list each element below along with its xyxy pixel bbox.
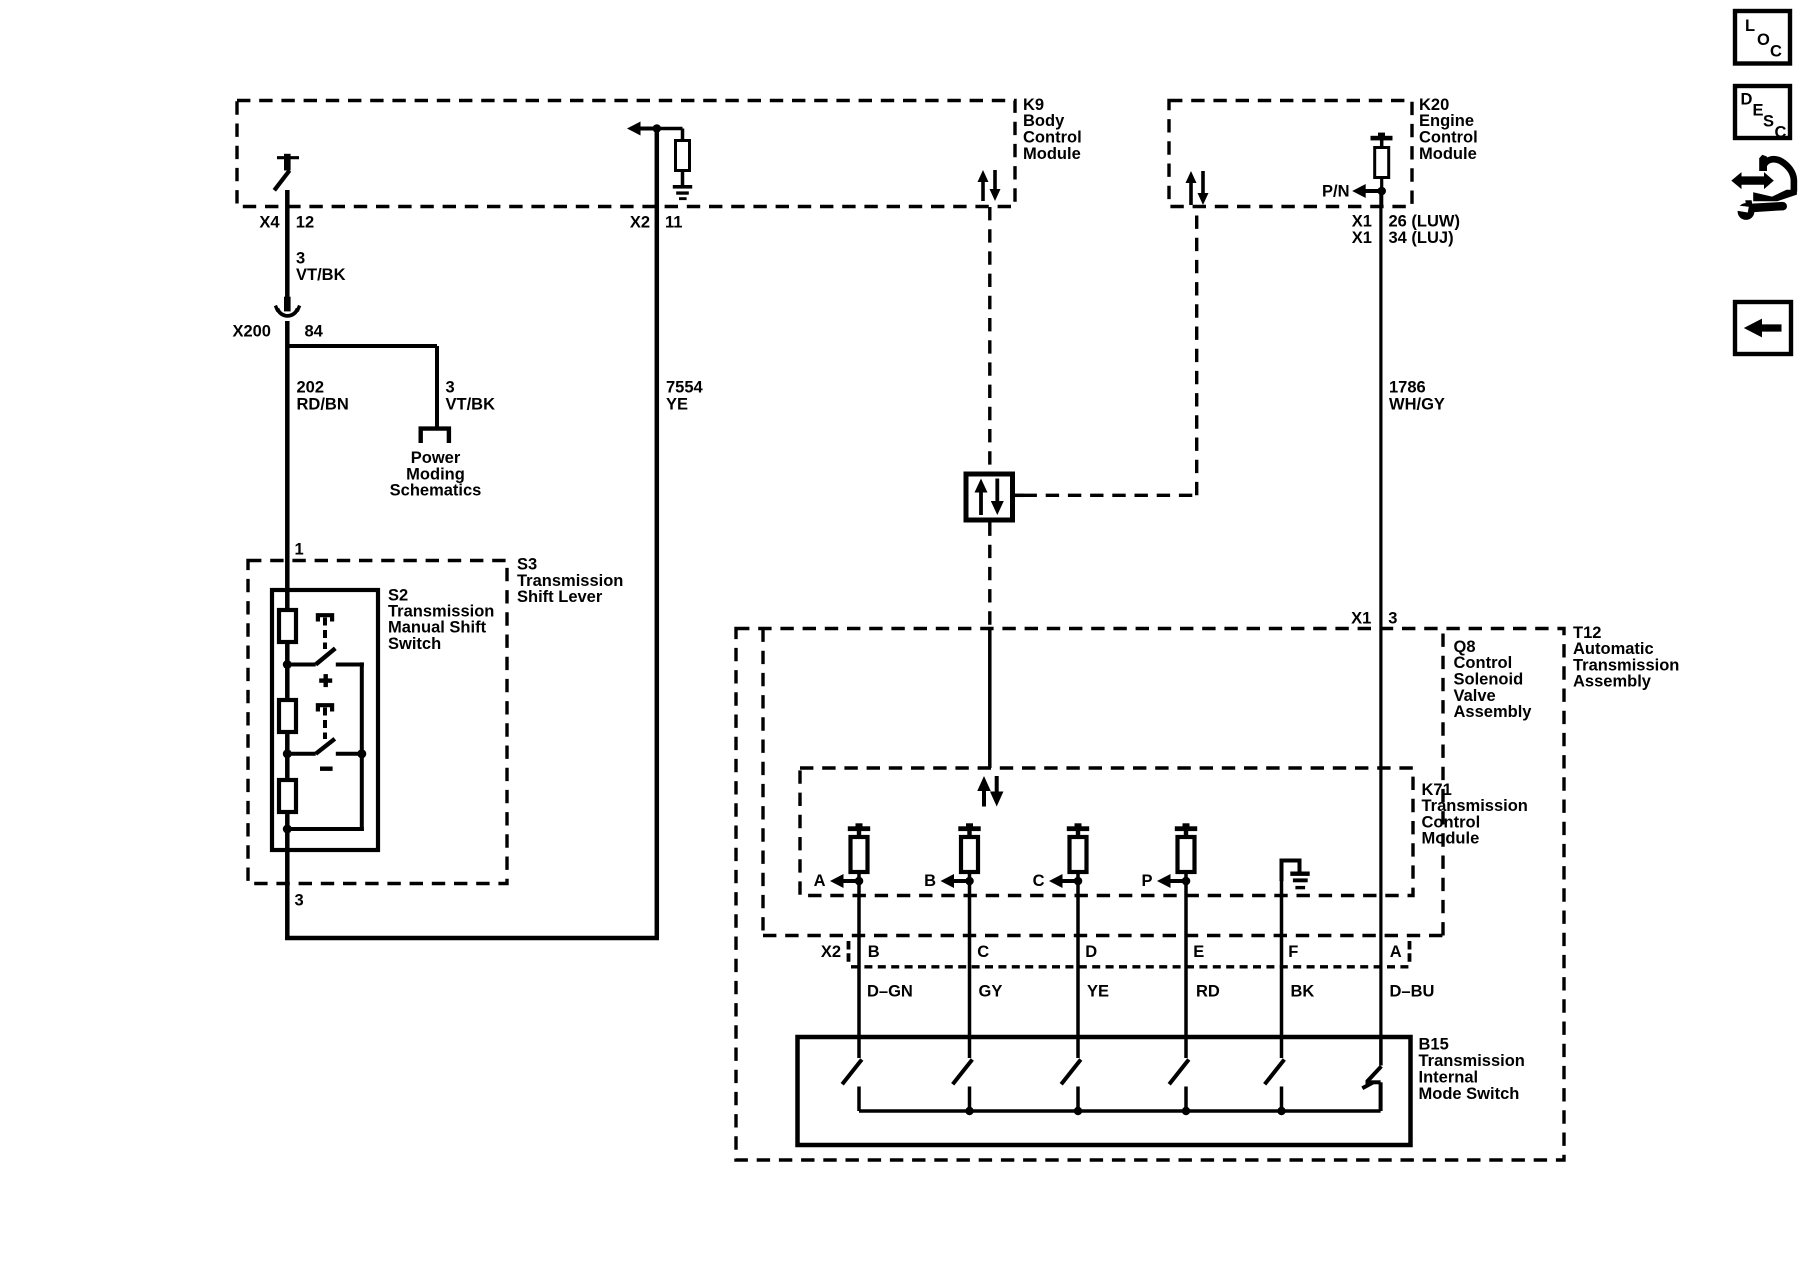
connector label X2 pin 11 xyxy=(630,214,683,232)
resistor (terminator) inside K9 xyxy=(657,129,690,186)
wire C down to B15 xyxy=(1076,881,1080,1037)
svg-text:Switch: Switch xyxy=(388,635,441,653)
solenoid driver A in K71 xyxy=(848,823,870,881)
svg-text:X200: X200 xyxy=(232,322,271,340)
svg-text:Body: Body xyxy=(1023,112,1065,130)
icon diagnostic arrows + wrench xyxy=(1731,155,1797,220)
wire 1786 WH/GY from K20 to B15 xyxy=(1379,191,1382,1037)
svg-text:3: 3 xyxy=(1388,610,1397,628)
arrow (signal continues) inside K9 xyxy=(627,122,641,136)
ground symbol inside K9 xyxy=(673,185,692,200)
svg-text:B: B xyxy=(924,872,936,890)
wire color labels xyxy=(867,983,1434,1001)
K20 label xyxy=(1419,96,1478,163)
svg-text:VT/BK: VT/BK xyxy=(296,266,346,284)
wire label 3 VT/BK (branch) xyxy=(446,379,496,414)
junction node on 1786 wire xyxy=(1377,187,1386,196)
svg-text:A: A xyxy=(1390,943,1402,961)
icon DESC button xyxy=(1735,86,1790,142)
S2 label xyxy=(388,587,494,653)
junction node C xyxy=(1074,877,1083,886)
svg-text:D: D xyxy=(1085,943,1097,961)
svg-text:S3: S3 xyxy=(517,556,537,574)
S3 Transmission Shift Lever dashed box xyxy=(248,561,507,884)
up/down serial data arrows inside K20 xyxy=(1189,182,1193,205)
svg-text:L: L xyxy=(1745,17,1755,35)
up/down serial data arrows inside K9 xyxy=(981,181,985,201)
svg-text:Automatic: Automatic xyxy=(1573,640,1654,658)
mode switch contact 1 in B15 xyxy=(842,1037,862,1111)
wire from switch to X4 pin 12 xyxy=(285,190,290,297)
dashed serial data wire from symbol down to T12 xyxy=(988,523,991,629)
module K20 Engine Control Module dashed box xyxy=(1169,101,1412,207)
svg-text:Control: Control xyxy=(1422,813,1481,831)
svg-text:K71: K71 xyxy=(1422,781,1452,799)
S3 label xyxy=(517,556,623,607)
svg-text:P/N: P/N xyxy=(1322,183,1350,201)
output arrow P xyxy=(1141,872,1186,890)
solenoid driver P in K71 xyxy=(1175,823,1197,881)
svg-text:D–GN: D–GN xyxy=(867,983,913,1001)
svg-text:Assembly: Assembly xyxy=(1573,673,1652,691)
wire F (BK) down to B15 xyxy=(1280,878,1284,1037)
svg-text:C: C xyxy=(977,943,989,961)
svg-text:Control: Control xyxy=(1023,129,1082,147)
S2 wire segment R1-R2 xyxy=(285,642,290,700)
svg-text:C: C xyxy=(1775,124,1787,142)
solenoid driver B in K71 xyxy=(958,823,980,881)
S2 switch cell 2 (-) xyxy=(287,705,364,754)
svg-text:Module: Module xyxy=(1023,145,1081,163)
svg-text:P: P xyxy=(1141,872,1152,890)
T12 label xyxy=(1573,624,1679,691)
X2 row labels xyxy=(821,943,1402,961)
mode switch contact 6 (closed, pin A) in B15 xyxy=(1362,1037,1381,1111)
up/down serial data arrows inside K71 xyxy=(982,790,986,807)
svg-text:K20: K20 xyxy=(1419,96,1449,114)
svg-text:Moding: Moding xyxy=(406,465,465,483)
svg-text:X2: X2 xyxy=(821,943,841,961)
off-page label Power Moding Schematics xyxy=(390,449,482,500)
mode switch contact 5 in B15 xyxy=(1265,1037,1285,1111)
wire label 202 RD/BN xyxy=(297,379,349,414)
mode switch contact 2 in B15 xyxy=(953,1037,973,1111)
B15 label xyxy=(1419,1036,1525,1104)
dashed serial data wire from K9 xyxy=(988,207,991,472)
K71 label xyxy=(1422,781,1528,848)
solid serial data wire into K71 xyxy=(988,629,992,769)
connector label X1 pin 3 at T12 xyxy=(1351,610,1397,628)
output arrow B xyxy=(924,872,969,890)
S2 wire segment R2-R3 xyxy=(285,732,290,780)
S2 resistor R3 xyxy=(279,780,296,812)
svg-text:Transmission: Transmission xyxy=(1419,1052,1525,1070)
svg-text:C: C xyxy=(1033,872,1045,890)
wire label 3 VT/BK (upper) xyxy=(296,250,346,284)
X2 separator left xyxy=(847,941,851,964)
output arrow A xyxy=(814,872,859,890)
svg-text:B15: B15 xyxy=(1419,1036,1449,1054)
svg-text:7554: 7554 xyxy=(666,379,704,397)
X2 separator right xyxy=(1408,941,1412,964)
svg-text:Module: Module xyxy=(1422,830,1480,848)
S2 Transmission Manual Shift Switch box xyxy=(272,590,378,850)
svg-text:Control: Control xyxy=(1419,129,1478,147)
svg-text:3: 3 xyxy=(296,250,305,268)
svg-text:GY: GY xyxy=(979,983,1003,1001)
icon back arrow button xyxy=(1735,302,1791,354)
junction node S2 cell1 xyxy=(283,660,292,669)
svg-text:3: 3 xyxy=(446,379,455,397)
svg-text:Transmission: Transmission xyxy=(1573,656,1679,674)
svg-text:202: 202 xyxy=(297,379,325,397)
svg-text:1: 1 xyxy=(295,541,304,559)
svg-text:Transmission: Transmission xyxy=(1422,797,1528,815)
svg-text:X1: X1 xyxy=(1351,610,1371,628)
svg-text:X2: X2 xyxy=(630,214,650,232)
svg-text:X4: X4 xyxy=(259,214,280,232)
S2 switch cell 1 (+) xyxy=(287,615,364,664)
svg-text:E: E xyxy=(1753,102,1764,120)
output arrow C xyxy=(1033,872,1078,890)
pull-up resistor inside K20 xyxy=(1371,133,1393,206)
svg-text:WH/GY: WH/GY xyxy=(1389,395,1445,413)
bus junction nodes xyxy=(965,1107,973,1115)
S2 resistor R2 xyxy=(279,700,296,732)
junction node S2 bottom xyxy=(283,825,292,834)
svg-text:K9: K9 xyxy=(1023,96,1044,114)
solenoid driver C in K71 xyxy=(1067,823,1089,881)
junction node A xyxy=(855,877,864,886)
svg-text:Transmission: Transmission xyxy=(517,572,623,590)
module T12 Automatic Transmission Assembly dashed box xyxy=(736,629,1564,1161)
svg-text:D–BU: D–BU xyxy=(1390,983,1435,1001)
svg-text:X1: X1 xyxy=(1352,229,1372,247)
junction node on S2 right rail xyxy=(357,749,366,758)
svg-text:12: 12 xyxy=(296,214,314,232)
wire label 1786 WH/GY xyxy=(1389,379,1445,414)
S2 bottom link xyxy=(285,827,364,831)
svg-text:B: B xyxy=(868,943,880,961)
plus sign xyxy=(319,674,332,687)
svg-text:BK: BK xyxy=(1291,983,1315,1001)
branch wire to Power Moding Schematics xyxy=(287,346,437,427)
K9 label xyxy=(1023,96,1082,163)
module B15 Transmission Internal Mode Switch box xyxy=(798,1037,1411,1145)
svg-text:84: 84 xyxy=(305,322,324,340)
svg-text:1786: 1786 xyxy=(1389,379,1426,397)
svg-text:A: A xyxy=(814,872,826,890)
module K71 Transmission Control Module dashed box xyxy=(800,768,1413,896)
wire B down to B15 xyxy=(968,881,972,1037)
mode switch contact 4 in B15 xyxy=(1169,1037,1189,1111)
svg-text:T12: T12 xyxy=(1573,624,1601,642)
module K9 Body Control Module dashed box xyxy=(237,101,1015,207)
connector label X4 pin 12 xyxy=(259,214,314,232)
junction node S2 cell2 xyxy=(283,749,292,758)
wire 7554 YE (vertical + bottom link to S2 output) xyxy=(285,129,659,941)
wire label 7554 YE xyxy=(666,379,704,414)
svg-text:Internal: Internal xyxy=(1419,1069,1479,1087)
svg-text:3: 3 xyxy=(295,892,304,910)
inline connector X200 pin 84 xyxy=(232,297,323,341)
Q8 label xyxy=(1454,638,1533,721)
svg-text:C: C xyxy=(1770,43,1782,61)
off-page connector symbol (Power Moding) xyxy=(421,429,449,443)
wire P down to B15 xyxy=(1184,881,1188,1037)
svg-text:Mode Switch: Mode Switch xyxy=(1419,1085,1520,1103)
wire A down to B15 xyxy=(857,881,861,1037)
splice/gateway symbol (box with up/down arrows) xyxy=(966,474,1024,520)
B15 common bus xyxy=(859,1109,1381,1113)
svg-text:11: 11 xyxy=(665,214,682,232)
junction node B xyxy=(965,877,974,886)
mode switch contact 3 in B15 xyxy=(1061,1037,1081,1111)
connector labels X1 26 (LUW) / X1 34 (LUJ) xyxy=(1352,213,1460,247)
junction node P xyxy=(1182,877,1191,886)
S2 right rail xyxy=(360,662,364,831)
svg-text:Schematics: Schematics xyxy=(390,482,482,500)
svg-text:Valve: Valve xyxy=(1454,687,1496,705)
svg-text:34 (LUJ): 34 (LUJ) xyxy=(1389,229,1454,247)
svg-text:YE: YE xyxy=(1087,983,1109,1001)
svg-text:VT/BK: VT/BK xyxy=(446,395,496,413)
svg-text:O: O xyxy=(1757,31,1770,49)
connector row X2 dotted bottom line xyxy=(851,965,1413,968)
svg-text:RD: RD xyxy=(1196,983,1220,1001)
svg-text:X1: X1 xyxy=(1352,213,1372,231)
svg-text:D: D xyxy=(1741,91,1753,109)
svg-text:YE: YE xyxy=(666,395,688,413)
svg-text:S: S xyxy=(1763,113,1774,131)
minus sign xyxy=(320,767,333,771)
icon LOC button xyxy=(1735,11,1790,64)
svg-text:E: E xyxy=(1193,943,1204,961)
svg-text:Module: Module xyxy=(1419,145,1477,163)
svg-text:Assembly: Assembly xyxy=(1454,703,1533,721)
module Q8 Control Solenoid Valve Assembly dashed box xyxy=(763,629,1443,936)
switch S (ignition voltage) inside K9 xyxy=(274,154,299,191)
svg-text:Solenoid: Solenoid xyxy=(1454,671,1524,689)
junction node at 7554 wire top xyxy=(653,124,662,133)
svg-text:Q8: Q8 xyxy=(1454,638,1476,656)
S2 wire segment R3-bottom xyxy=(285,812,290,832)
svg-text:Control: Control xyxy=(1454,654,1513,672)
svg-text:Engine: Engine xyxy=(1419,112,1474,130)
svg-text:F: F xyxy=(1288,943,1298,961)
dashed serial data wire from symbol to K20 xyxy=(1024,207,1197,496)
svg-text:RD/BN: RD/BN xyxy=(297,395,349,413)
ground symbol inside K71 xyxy=(1280,859,1310,890)
svg-text:Power: Power xyxy=(411,449,461,467)
wire 202 RD/BN from X200 down to S2 xyxy=(285,321,290,611)
S2 resistor R1 xyxy=(279,610,296,642)
svg-text:26 (LUW): 26 (LUW) xyxy=(1389,213,1461,231)
P/N arrow inside K20 xyxy=(1322,183,1382,201)
svg-text:Shift Lever: Shift Lever xyxy=(517,588,603,606)
